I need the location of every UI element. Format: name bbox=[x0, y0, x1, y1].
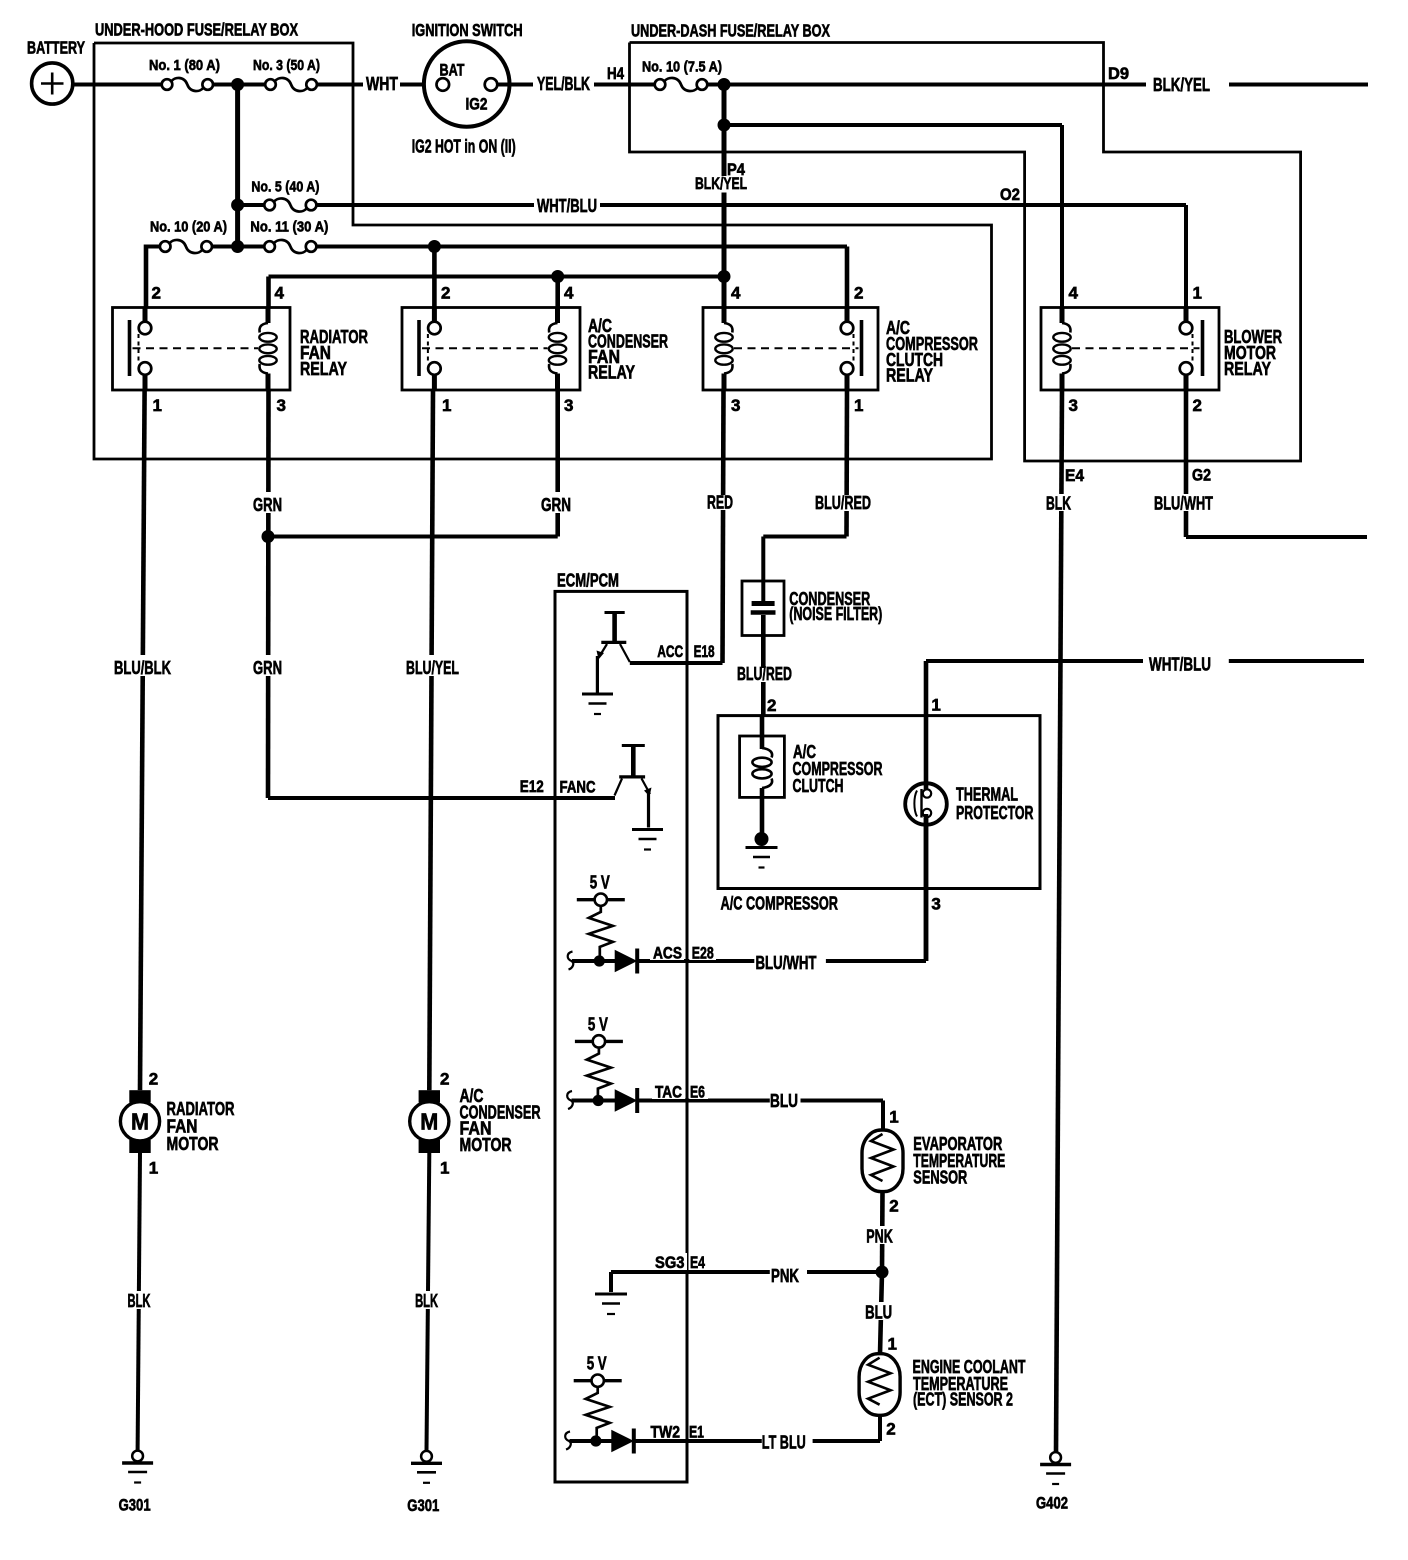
wire BLK A/C condenser fan motor to G301 bbox=[427, 1153, 430, 1451]
svg-text:WHT/BLU: WHT/BLU bbox=[1149, 655, 1211, 675]
svg-text:MOTOR: MOTOR bbox=[460, 1135, 512, 1155]
svg-text:4: 4 bbox=[1069, 284, 1079, 303]
resistor R1 ACS pull-up bbox=[589, 906, 613, 961]
node junction blower coil feed on P4 line bbox=[718, 119, 731, 132]
svg-text:RELAY: RELAY bbox=[1224, 359, 1271, 379]
under-dash fuse/relay box bbox=[630, 43, 1301, 462]
svg-text:E18: E18 bbox=[694, 643, 715, 661]
wire fuse No.1 to fuse No.3 bbox=[212, 83, 265, 87]
evaporator temperature sensor RT1 bbox=[862, 1130, 903, 1192]
svg-text:G301: G301 bbox=[119, 1497, 151, 1515]
wire BLU/WHT blower motor relay pin 2 to off-page right bbox=[1184, 390, 1189, 537]
node junction P4 feed bbox=[718, 78, 731, 91]
svg-text:THERMAL: THERMAL bbox=[956, 785, 1018, 805]
wire SG3 E4 PNK ground return bbox=[595, 1293, 627, 1296]
node junction BLK/YEL at relay coil feed line bbox=[718, 270, 731, 283]
node junction PNK/BLU bbox=[876, 1266, 889, 1279]
wire TAC with end hook bbox=[567, 1091, 573, 1109]
svg-text:BAT: BAT bbox=[440, 62, 465, 80]
node junction TW2 resistor bbox=[590, 1435, 601, 1446]
diode D2 TAC bbox=[615, 1090, 636, 1111]
svg-text:(NOISE FILTER): (NOISE FILTER) bbox=[789, 604, 882, 624]
node junction fuse1/fuse3 bus bbox=[231, 78, 244, 91]
wire battery to fuse No.1 bbox=[73, 83, 163, 87]
svg-text:CLUTCH: CLUTCH bbox=[793, 776, 844, 796]
wire YEL/BLK ignition IG2 to under-dash box bbox=[498, 83, 656, 87]
svg-text:BLU: BLU bbox=[770, 1091, 798, 1111]
resistor R2 TAC pull-up bbox=[587, 1048, 611, 1101]
ignition switch BAT contact bbox=[437, 78, 450, 91]
wire fuse No.11 to A/C compressor clutch relay pin 2 bbox=[316, 245, 848, 249]
svg-text:LT BLU: LT BLU bbox=[762, 1432, 806, 1452]
svg-text:3: 3 bbox=[1069, 396, 1078, 415]
svg-text:H4: H4 bbox=[607, 65, 624, 83]
fuse No.10 (7.5 A) under-dash bbox=[664, 78, 698, 91]
relay K3 A/C compressor clutch relay bbox=[703, 308, 878, 391]
svg-text:1: 1 bbox=[440, 1159, 449, 1178]
svg-text:PROTECTOR: PROTECTOR bbox=[956, 803, 1034, 823]
thermal protector TP1 bbox=[924, 661, 929, 796]
svg-text:SG3: SG3 bbox=[655, 1254, 685, 1272]
fuse No.1 (80 A) bbox=[171, 78, 204, 91]
svg-text:PNK: PNK bbox=[771, 1266, 799, 1286]
svg-text:1: 1 bbox=[149, 1159, 158, 1178]
svg-text:5 V: 5 V bbox=[588, 1014, 608, 1034]
svg-text:BLU/RED: BLU/RED bbox=[815, 493, 871, 513]
node junction fuse No.5 tap bbox=[231, 199, 244, 212]
svg-text:SENSOR: SENSOR bbox=[913, 1168, 967, 1188]
svg-text:2: 2 bbox=[1193, 396, 1202, 415]
svg-text:WHT/BLU: WHT/BLU bbox=[537, 196, 597, 216]
svg-text:GRN: GRN bbox=[541, 495, 571, 515]
svg-text:2: 2 bbox=[854, 284, 863, 303]
svg-text:RELAY: RELAY bbox=[300, 359, 347, 379]
ground A/C compressor clutch bbox=[755, 832, 769, 846]
svg-text:No. 1 (80 A): No. 1 (80 A) bbox=[149, 57, 220, 74]
vertical bus from fuse No.1 junction down to fuses 5/10/11 bbox=[235, 85, 240, 247]
resistor R3 TW2 pull-up bbox=[586, 1387, 610, 1441]
wire P4 BLK/YEL vertical to A/C compressor clutch relay bbox=[722, 85, 727, 308]
svg-text:No. 10 (7.5 A): No. 10 (7.5 A) bbox=[642, 59, 722, 76]
svg-text:No. 3 (50 A): No. 3 (50 A) bbox=[253, 57, 320, 74]
svg-text:BLU/RED: BLU/RED bbox=[737, 664, 792, 684]
capacitor C1 condenser noise filter bbox=[742, 581, 784, 636]
svg-text:BLK/YEL: BLK/YEL bbox=[1153, 75, 1210, 95]
svg-text:BLK: BLK bbox=[128, 1291, 151, 1311]
ignition switch IG2 contact bbox=[485, 78, 498, 91]
wire TW2 E1 LT BLU to ECT sensor 2 bbox=[635, 1439, 762, 1443]
svg-text:IGNITION SWITCH: IGNITION SWITCH bbox=[412, 20, 523, 40]
wire PNK evaporator sensor pin 2 to junction bbox=[880, 1192, 885, 1272]
svg-text:A/C COMPRESSOR: A/C COMPRESSOR bbox=[721, 894, 839, 914]
fuse No.10 (20 A) bbox=[146, 245, 161, 249]
transistor Q2 FANC driver bbox=[622, 744, 645, 747]
wire fuse No.10 to radiator fan relay pin 2 bbox=[144, 245, 149, 308]
svg-text:E4: E4 bbox=[690, 1254, 705, 1272]
svg-text:1: 1 bbox=[442, 396, 451, 415]
svg-text:3: 3 bbox=[564, 396, 573, 415]
svg-text:IG2 HOT in ON (II): IG2 HOT in ON (II) bbox=[412, 137, 516, 157]
svg-text:ECM/PCM: ECM/PCM bbox=[557, 571, 619, 591]
relay K2 A/C condenser fan relay bbox=[402, 308, 580, 391]
motor M1 radiator fan motor bbox=[129, 1090, 150, 1102]
wire TAC E6 BLU to evaporator temperature sensor bbox=[639, 1099, 770, 1103]
wire BLK blower motor relay pin 3 to G402 bbox=[1056, 390, 1062, 1452]
wire BLK/YEL feed to blower motor relay pin 4 bbox=[724, 123, 1062, 127]
svg-text:UNDER-DASH FUSE/RELAY BOX: UNDER-DASH FUSE/RELAY BOX bbox=[631, 21, 830, 41]
node junction TAC resistor bbox=[593, 1095, 604, 1106]
svg-text:BLU/BLK: BLU/BLK bbox=[114, 658, 171, 678]
svg-text:4: 4 bbox=[564, 284, 574, 303]
ground G402 blower relay BLK line bbox=[1050, 1452, 1061, 1463]
svg-text:2: 2 bbox=[441, 284, 450, 303]
svg-text:GRN: GRN bbox=[253, 658, 282, 678]
svg-text:BLK: BLK bbox=[1046, 494, 1071, 514]
svg-text:IG2: IG2 bbox=[466, 96, 488, 114]
svg-text:3: 3 bbox=[277, 396, 286, 415]
wire GRN A/C condenser fan relay pin 3 to junction bbox=[555, 390, 560, 537]
svg-text:M: M bbox=[131, 1109, 149, 1135]
svg-text:E12: E12 bbox=[520, 778, 544, 796]
svg-text:1: 1 bbox=[931, 696, 940, 715]
svg-text:3: 3 bbox=[931, 895, 940, 914]
A/C compressor box bbox=[718, 716, 1040, 889]
svg-text:3: 3 bbox=[731, 396, 740, 415]
svg-text:G402: G402 bbox=[1036, 1495, 1068, 1513]
svg-text:YEL/BLK: YEL/BLK bbox=[537, 74, 590, 94]
svg-text:G2: G2 bbox=[1192, 467, 1211, 485]
svg-text:No. 11 (30 A): No. 11 (30 A) bbox=[250, 219, 328, 236]
svg-text:5 V: 5 V bbox=[587, 1354, 607, 1374]
wire WHT/BLU fuse No.5 to blower motor relay pin 1 bbox=[316, 203, 534, 207]
svg-text:O2: O2 bbox=[1000, 186, 1020, 204]
ignition switch SW1 bbox=[424, 41, 510, 127]
svg-text:1: 1 bbox=[854, 396, 863, 415]
svg-text:E28: E28 bbox=[692, 945, 714, 963]
svg-text:2: 2 bbox=[152, 284, 161, 303]
wire BLU junction to ECT sensor 2 pin 1 bbox=[880, 1272, 882, 1354]
wire RED A/C compressor clutch relay pin 3 to ECM ACC E18 bbox=[723, 390, 724, 663]
A/C compressor clutch coil L1 bbox=[740, 736, 785, 797]
svg-text:1: 1 bbox=[888, 1335, 897, 1354]
svg-text:ACC: ACC bbox=[657, 643, 683, 661]
svg-text:No. 5 (40 A): No. 5 (40 A) bbox=[251, 179, 319, 196]
svg-text:FANC: FANC bbox=[560, 779, 596, 797]
svg-text:E1: E1 bbox=[689, 1424, 704, 1442]
svg-text:2: 2 bbox=[889, 1197, 898, 1216]
svg-text:4: 4 bbox=[275, 284, 285, 303]
svg-text:TW2: TW2 bbox=[651, 1424, 681, 1442]
svg-text:2: 2 bbox=[886, 1420, 895, 1439]
svg-text:BLU/WHT: BLU/WHT bbox=[1154, 494, 1213, 514]
svg-text:2: 2 bbox=[440, 1070, 449, 1089]
engine coolant temperature sensor RT2 (ECT sensor 2) bbox=[859, 1354, 900, 1416]
wire BLK radiator fan motor to G301 bbox=[138, 1153, 140, 1451]
svg-text:BLK: BLK bbox=[415, 1291, 438, 1311]
node junction condenser fan relay pin 4 tap bbox=[551, 270, 564, 283]
ECM/PCM box U1 bbox=[555, 591, 687, 1482]
relay K1 radiator fan relay bbox=[113, 308, 291, 391]
svg-text:BLU: BLU bbox=[865, 1302, 892, 1322]
battery B1 bbox=[32, 63, 73, 104]
wire GRN radiator fan relay pin 3 down to ECM FANC bbox=[266, 390, 271, 798]
svg-text:RELAY: RELAY bbox=[588, 363, 635, 383]
svg-text:WHT: WHT bbox=[366, 74, 398, 94]
svg-text:UNDER-HOOD FUSE/RELAY BOX: UNDER-HOOD FUSE/RELAY BOX bbox=[95, 20, 298, 40]
diode D3 TW2 bbox=[612, 1431, 633, 1452]
svg-text:2: 2 bbox=[767, 696, 776, 715]
svg-text:5 V: 5 V bbox=[590, 873, 610, 893]
node junction A/C condenser fan relay pin 2 tap bbox=[428, 240, 441, 253]
svg-text:G301: G301 bbox=[407, 1497, 439, 1515]
ground internal Q1 emitter bbox=[582, 693, 613, 696]
wire ACS with end hook bbox=[568, 952, 574, 970]
svg-text:RED: RED bbox=[707, 493, 733, 513]
fuse No.5 (40 A) bbox=[243, 203, 265, 207]
wire WHT/BLU thermal protector pin 1 to off-page right bbox=[926, 659, 1143, 663]
ground G301 radiator fan motor bbox=[132, 1451, 143, 1462]
svg-text:MOTOR: MOTOR bbox=[167, 1134, 219, 1154]
wire relay coil feed line to radiator and condenser fan relay pin 4 bbox=[269, 275, 725, 279]
svg-text:4: 4 bbox=[731, 284, 741, 303]
diode D1 ACS bbox=[615, 951, 636, 972]
node junction ACS resistor bbox=[594, 955, 605, 966]
svg-text:PNK: PNK bbox=[866, 1226, 893, 1246]
fuse No.3 (50 A) bbox=[275, 78, 308, 91]
svg-text:M: M bbox=[420, 1109, 438, 1135]
wire WHT fuse No.3 to ignition switch BAT bbox=[317, 83, 438, 87]
wire BLU/BLK radiator fan relay pin 1 to radiator fan motor bbox=[140, 390, 145, 1090]
svg-text:E6: E6 bbox=[690, 1084, 705, 1102]
under-hood fuse/relay box bbox=[94, 43, 992, 459]
svg-text:2: 2 bbox=[149, 1070, 158, 1089]
node junction fuse No.10/11 tap bbox=[231, 240, 244, 253]
svg-text:ACS: ACS bbox=[653, 945, 682, 963]
svg-text:1: 1 bbox=[153, 396, 162, 415]
node junction GRN wires bbox=[262, 530, 275, 543]
ground G301 A/C condenser fan motor bbox=[421, 1451, 432, 1462]
wire TW2 with end hook bbox=[565, 1432, 571, 1450]
svg-text:1: 1 bbox=[1193, 284, 1202, 303]
wire BLU/RED A/C compressor clutch relay pin 1 to condenser noise filter bbox=[844, 390, 849, 537]
ground internal Q2 emitter bbox=[632, 828, 663, 831]
svg-text:GRN: GRN bbox=[253, 495, 282, 515]
transistor Q1 ACC driver bbox=[605, 611, 625, 614]
wire ACS E28 to thermal protector bbox=[639, 959, 755, 963]
svg-text:E4: E4 bbox=[1065, 467, 1084, 485]
svg-text:1: 1 bbox=[889, 1108, 898, 1127]
svg-text:BLK/YEL: BLK/YEL bbox=[695, 174, 747, 193]
svg-text:TAC: TAC bbox=[655, 1084, 682, 1102]
svg-text:BLU/WHT: BLU/WHT bbox=[756, 953, 817, 973]
svg-text:D9: D9 bbox=[1108, 65, 1129, 83]
svg-text:RELAY: RELAY bbox=[886, 366, 933, 386]
relay K4 blower motor relay bbox=[1041, 308, 1219, 391]
svg-text:(ECT) SENSOR 2: (ECT) SENSOR 2 bbox=[913, 1390, 1013, 1410]
motor M2 A/C condenser fan motor bbox=[419, 1090, 440, 1102]
wire BLU/YEL A/C condenser fan relay pin 1 to condenser fan motor bbox=[429, 390, 433, 1090]
wire BLK/YEL under-dash fuse to D9 and off-page bbox=[706, 83, 1146, 87]
svg-text:BATTERY: BATTERY bbox=[27, 38, 85, 58]
svg-text:No. 10 (20 A): No. 10 (20 A) bbox=[150, 219, 227, 236]
fuse No.11 (30 A) bbox=[211, 245, 265, 249]
wire A/C condenser fan relay pin 2 lead bbox=[432, 247, 437, 308]
svg-text:BLU/YEL: BLU/YEL bbox=[406, 658, 459, 678]
